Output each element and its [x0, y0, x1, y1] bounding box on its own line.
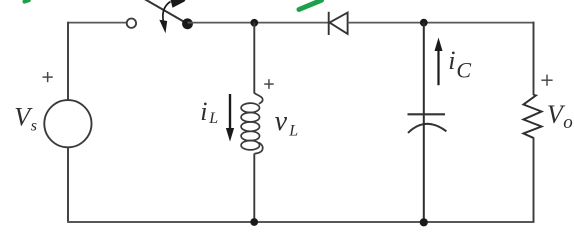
green pen stroke near diode	[299, 0, 322, 9]
capacitor C bottom curved plate	[408, 124, 446, 133]
diode D triangle (pointing left)	[330, 13, 348, 34]
current arrow iC (up)	[437, 49, 439, 85]
wire from diode to top-right corner	[348, 22, 535, 24]
wire bottom horizontal	[67, 221, 534, 223]
plus sign of Vo	[541, 75, 552, 86]
wire right vertical upper (corner to resistor)	[533, 22, 535, 95]
svg-text:i: i	[200, 97, 207, 126]
wire inductor branch upper	[253, 23, 255, 94]
wire top-left horizontal (corner to switch terminal)	[68, 22, 126, 24]
inductor L coil loops	[241, 93, 263, 154]
diode D cathode bar	[328, 12, 330, 35]
svg-text:o: o	[563, 112, 573, 133]
wire left vertical (top corner down to source top)	[67, 22, 69, 101]
plus sign of Vs	[43, 72, 53, 82]
plus sign of vL	[264, 79, 274, 89]
switch pivot dot	[182, 18, 193, 29]
node junction dot (capacitor bottom)	[420, 218, 428, 226]
svg-text:i: i	[448, 46, 455, 75]
switch open terminal circle	[127, 19, 136, 28]
annotation arrowhead at top edge (cut off)	[170, 0, 186, 8]
switch lever arm	[145, 0, 188, 24]
current arrow iL (down)	[229, 94, 231, 130]
node junction dot (capacitor top)	[420, 19, 428, 27]
resistor R zigzag	[524, 95, 542, 138]
wire inductor branch lower	[253, 154, 255, 223]
node junction dot (inductor top)	[250, 19, 258, 27]
svg-text:L: L	[288, 122, 298, 139]
svg-text:C: C	[456, 58, 471, 83]
capacitor C top plate	[408, 113, 446, 115]
svg-text:v: v	[275, 106, 288, 137]
wire capacitor branch lower	[423, 123, 425, 222]
voltage source Vs circle	[44, 100, 91, 147]
svg-text:L: L	[208, 110, 218, 127]
switch motion curved arrow arc	[163, 2, 171, 22]
green pen mark top-left	[25, 0, 29, 1]
wire right vertical lower (resistor to bottom corner)	[533, 138, 535, 222]
wire capacitor branch upper	[423, 23, 425, 123]
node junction dot (inductor bottom)	[250, 218, 258, 226]
svg-text:s: s	[31, 118, 37, 135]
switch motion arrowhead (small, pointing down)	[159, 20, 167, 33]
wire left vertical (source bottom to bottom corner)	[67, 147, 69, 222]
wire from switch to diode	[188, 22, 329, 24]
